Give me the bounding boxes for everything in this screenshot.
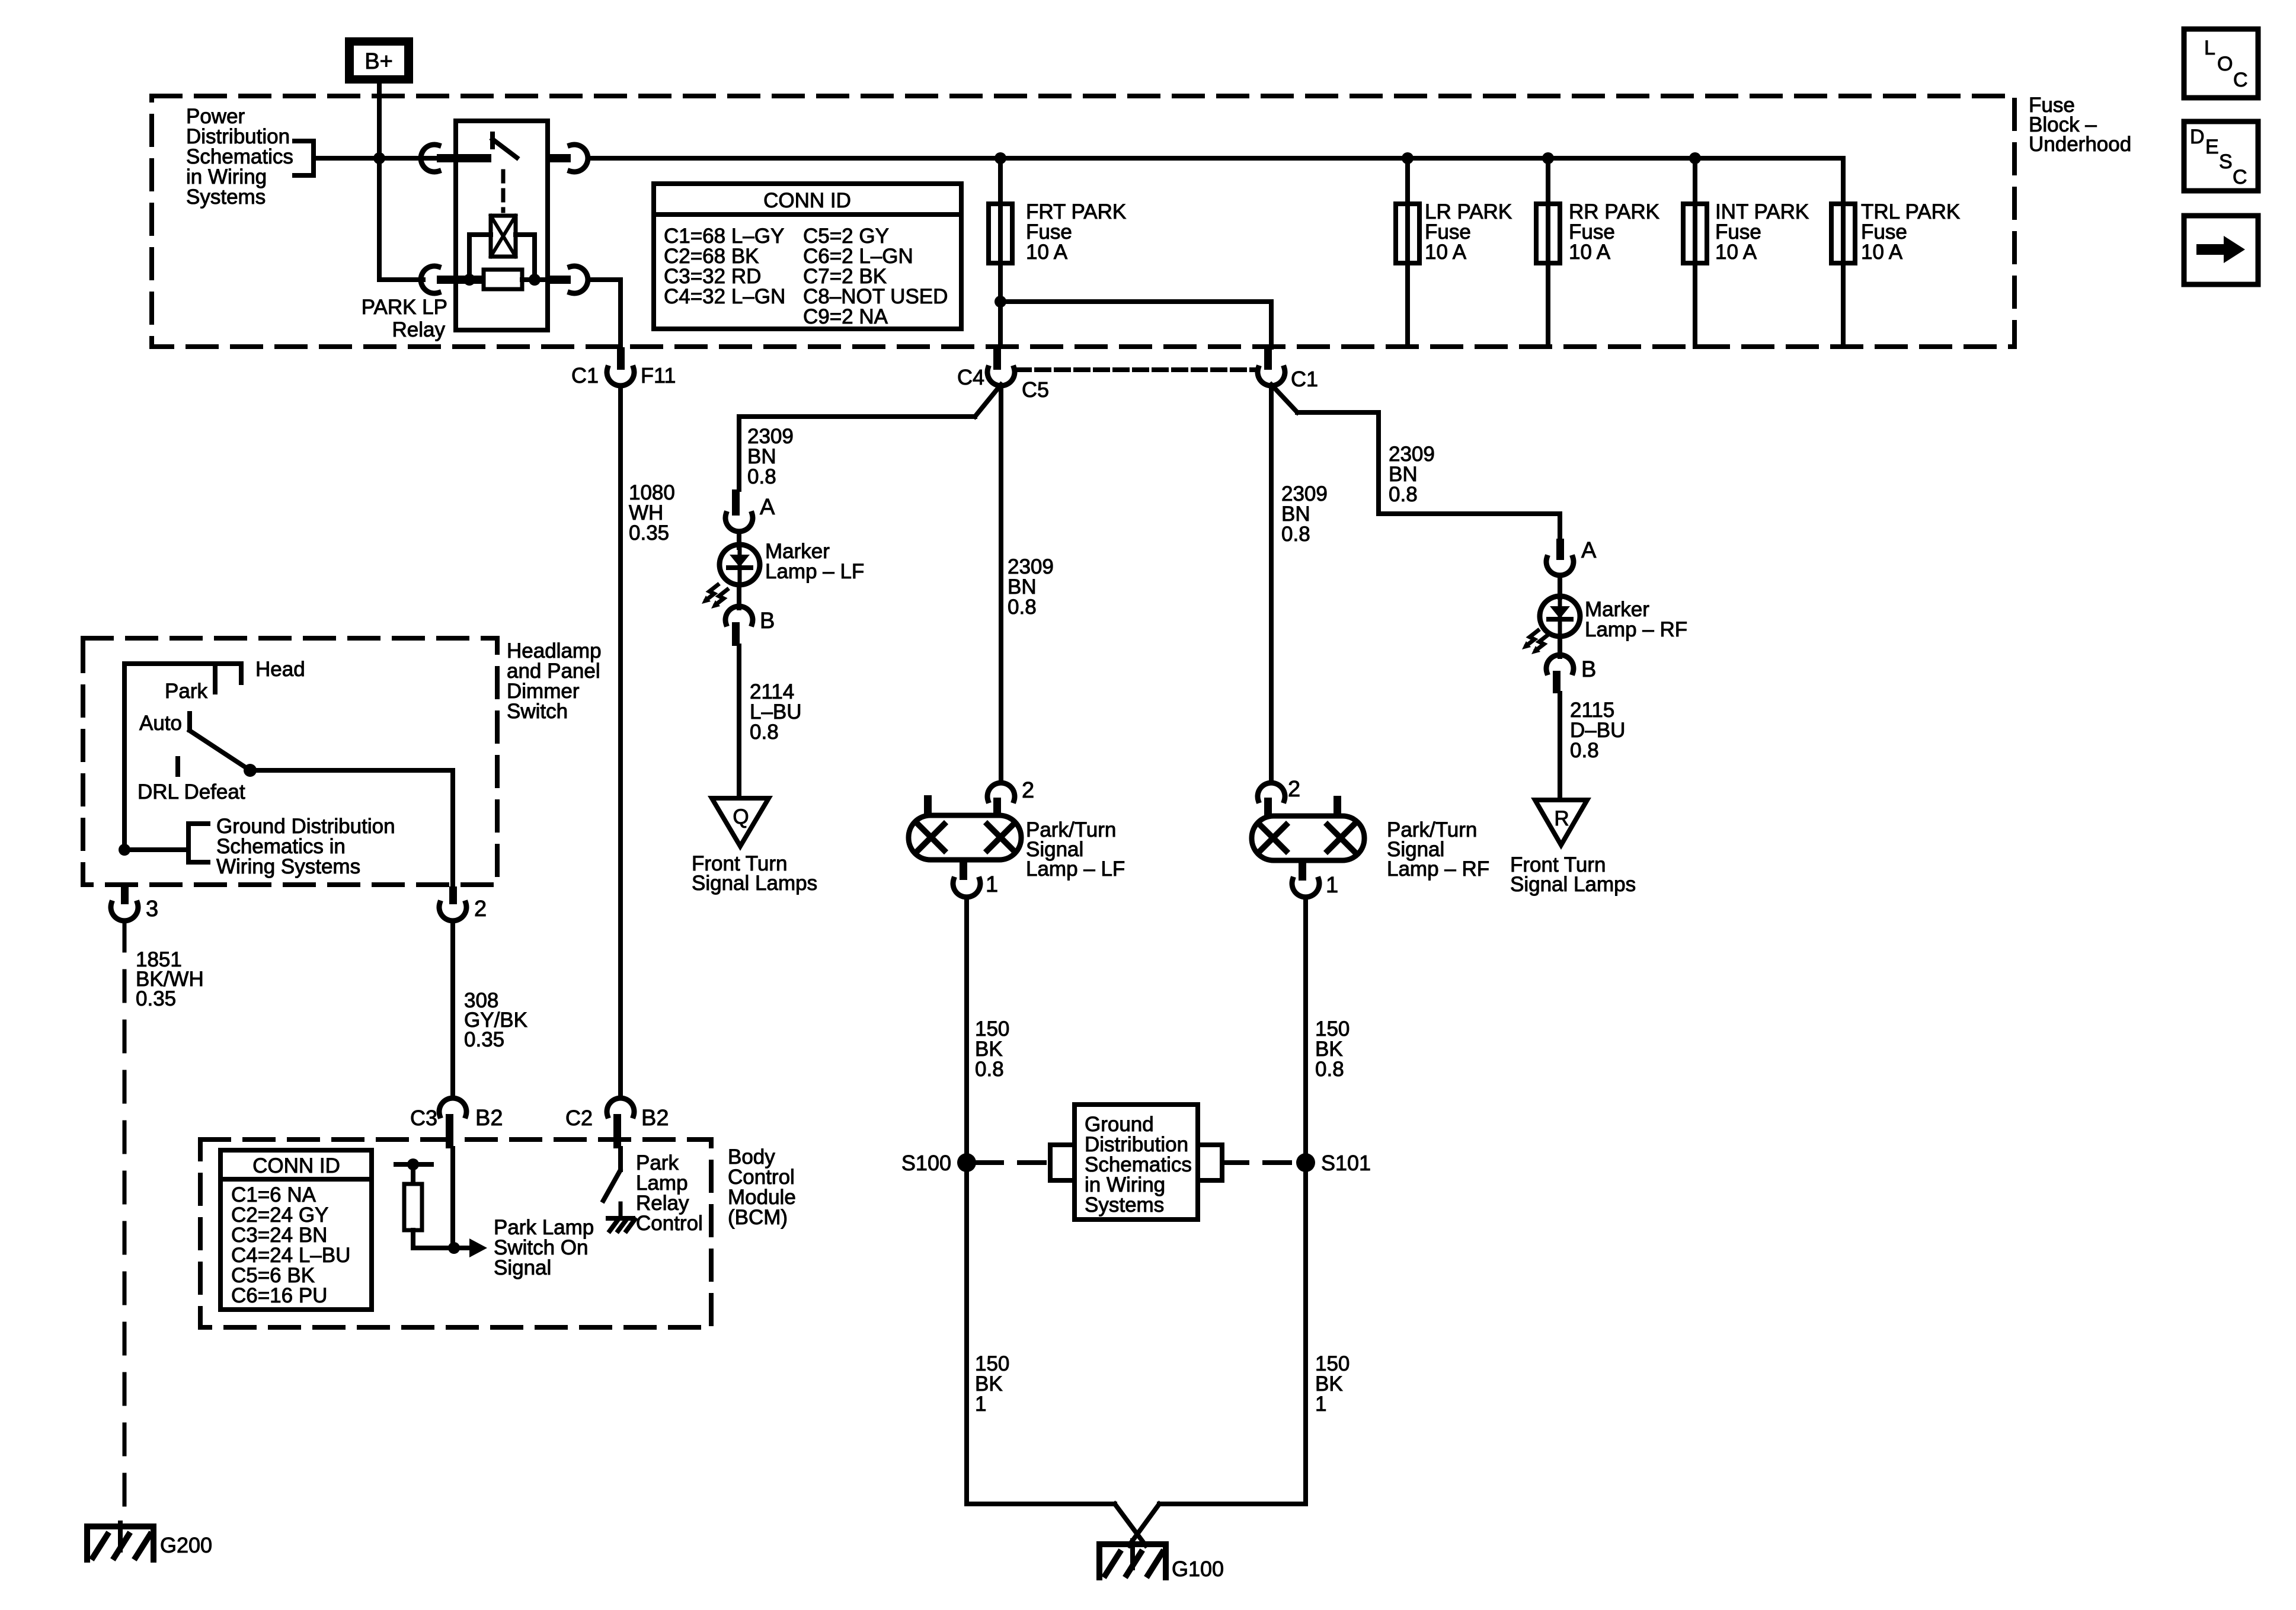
note Ground Distribution Schematics in Wiring Systems (switch) — [119, 815, 395, 878]
svg-text:A: A — [760, 495, 775, 520]
lamp Park/Turn Signal Lamp LF — [909, 778, 1034, 897]
connector A Marker Lamp LF — [725, 489, 775, 532]
label Headlamp and Panel Dimmer Switch — [507, 639, 602, 723]
relay pin upper left connector — [421, 145, 491, 172]
wire C1 down to Park/Turn RF pin 2 — [1269, 386, 1274, 783]
fuse INT PARK 10 A — [1683, 152, 1809, 347]
relay resistor — [469, 270, 548, 289]
svg-text:Lamp – LF: Lamp – LF — [765, 560, 864, 583]
wire B to R triangle — [1558, 693, 1562, 800]
wire dashed to G200 — [123, 921, 127, 1517]
svg-text:0.8: 0.8 — [1570, 739, 1599, 762]
svg-text:CONN ID: CONN ID — [252, 1154, 340, 1177]
label 308 GY/BK 0.35 — [464, 989, 527, 1051]
connector B Marker Lamp LF — [725, 585, 775, 646]
node relay coil right — [529, 274, 541, 286]
svg-text:B+: B+ — [364, 49, 393, 74]
wire C1 branch to Marker Lamp RF — [1271, 385, 1560, 539]
svg-text:G200: G200 — [160, 1533, 212, 1557]
svg-text:S101: S101 — [1321, 1151, 1371, 1175]
ground G200 — [87, 1523, 212, 1560]
svg-text:Lamp – RF: Lamp – RF — [1585, 618, 1687, 641]
svg-text:C2: C2 — [565, 1106, 593, 1130]
svg-text:Park: Park — [165, 680, 207, 703]
svg-text:G100: G100 — [1172, 1557, 1224, 1581]
off-page triangle Q — [712, 798, 769, 846]
label Body Control Module (BCM) — [728, 1145, 796, 1229]
wire C3 into BCM — [450, 1148, 455, 1248]
svg-text:2: 2 — [1288, 777, 1300, 802]
svg-text:Head: Head — [255, 658, 305, 681]
resistor BCM pull-up — [396, 1158, 469, 1248]
label 2309 BN 0.8 (marker LF) — [747, 425, 794, 488]
fuse block underhood dashed outline — [152, 96, 2014, 347]
connector B Marker Lamp RF — [1546, 636, 1596, 693]
jumper C5 to C1 dotted — [1017, 367, 1256, 372]
wire pin2 to BCM C3 — [450, 921, 455, 1098]
label 150 BK 1 (right) — [1315, 1352, 1350, 1416]
svg-text:0.35: 0.35 — [136, 987, 176, 1010]
svg-text:1: 1 — [1326, 873, 1338, 898]
node park lamp switch signal — [448, 1242, 460, 1254]
connector C3 B2 — [410, 1098, 503, 1148]
relay pin lower right connector — [548, 266, 588, 293]
connector C4 / C5 — [957, 347, 1049, 402]
svg-text:F11: F11 — [641, 363, 676, 388]
svg-text:B: B — [760, 609, 775, 633]
wire S100/S101 down to G100 — [967, 1504, 1306, 1545]
node relay coil left — [463, 274, 475, 286]
label Park/Turn Signal Lamp - LF — [1026, 818, 1125, 881]
fuse LR PARK 10 A — [1396, 152, 1512, 347]
wire C5 down to Park/Turn LF pin 2 — [999, 386, 1003, 783]
svg-text:(BCM): (BCM) — [728, 1206, 788, 1229]
svg-text:Lamp – RF: Lamp – RF — [1387, 857, 1489, 881]
svg-text:DRL Defeat: DRL Defeat — [137, 780, 245, 804]
connector A Marker Lamp RF — [1546, 538, 1597, 575]
svg-text:1: 1 — [1315, 1393, 1326, 1416]
svg-text:0.8: 0.8 — [975, 1058, 1004, 1081]
off-page triangle R — [1535, 800, 1587, 845]
wire blade output — [250, 770, 453, 886]
svg-text:1: 1 — [986, 872, 998, 897]
switch Headlamp and Panel Dimmer dashed outline — [83, 638, 497, 885]
svg-text:2: 2 — [1022, 778, 1034, 803]
relay pin lower left connector — [421, 266, 491, 293]
svg-text:0.35: 0.35 — [464, 1028, 504, 1051]
wire C4 to Marker Lamp LF branch — [739, 385, 1001, 489]
label 2114 L-BU 0.8 — [750, 680, 802, 744]
wire B to Q triangle — [737, 646, 741, 798]
node B+ junction — [373, 152, 385, 164]
note Power Distribution Schematics in Wiring Systems — [186, 105, 314, 209]
label 2115 D-BU 0.8 — [1570, 699, 1625, 762]
wire Park/Turn RF pin1 to S101 — [1303, 897, 1308, 1504]
svg-text:B2: B2 — [475, 1106, 503, 1131]
fuse RR PARK 10 A — [1536, 152, 1659, 347]
svg-text:0.8: 0.8 — [1315, 1058, 1344, 1081]
note Ground Distribution Schematics in Wiring Systems (box) — [977, 1105, 1296, 1219]
svg-text:E: E — [2205, 136, 2219, 158]
table CONN ID BCM — [220, 1150, 372, 1310]
ground G100 — [1099, 1541, 1224, 1581]
connector C1 fuse block RF — [1258, 347, 1318, 391]
label 150 BK 1 (left) — [975, 1352, 1009, 1416]
svg-text:Signal Lamps: Signal Lamps — [1510, 873, 1636, 896]
lamp Park/Turn Signal Lamp RF — [1252, 777, 1364, 898]
svg-text:10 A: 10 A — [1569, 241, 1611, 264]
label Park/Turn Signal Lamp - RF — [1387, 818, 1489, 881]
svg-text:Signal Lamps: Signal Lamps — [692, 872, 817, 895]
svg-text:10 A: 10 A — [1425, 241, 1467, 264]
contact DRL Defeat — [137, 758, 245, 804]
svg-text:C6=16 PU: C6=16 PU — [231, 1284, 327, 1307]
svg-text:S100: S100 — [901, 1151, 951, 1175]
svg-text:B2: B2 — [641, 1106, 669, 1131]
svg-text:Auto: Auto — [139, 712, 182, 735]
wire F11 down to BCM C2 — [618, 386, 623, 1098]
svg-text:C5: C5 — [1022, 377, 1049, 402]
relay switch — [493, 134, 517, 158]
label Front Turn Signal Lamps (right) — [1510, 853, 1636, 896]
wire A to lamp — [737, 532, 741, 548]
svg-text:CONN ID: CONN ID — [763, 189, 851, 212]
label 1851 BK/WH 0.35 — [136, 948, 204, 1010]
arrow Park Lamp Switch On Signal — [469, 1216, 594, 1279]
wire A to lamp RF — [1558, 575, 1562, 597]
label Marker Lamp - RF — [1585, 598, 1687, 641]
label 150 BK 0.8 (left) — [975, 1017, 1009, 1081]
svg-text:O: O — [2217, 53, 2233, 75]
power symbol B+ — [345, 37, 413, 84]
svg-text:C: C — [2233, 69, 2248, 91]
svg-text:Underhood: Underhood — [2029, 133, 2131, 156]
label PARK LP Relay — [362, 296, 447, 341]
label 2309 BN 0.8 (marker RF) — [1389, 443, 1435, 506]
connector C1 F11 — [571, 347, 676, 388]
table CONN ID fuse block — [654, 184, 961, 329]
connector pin 2 — [439, 886, 487, 921]
svg-text:0.8: 0.8 — [750, 721, 779, 744]
svg-text:0.8: 0.8 — [1389, 483, 1418, 506]
svg-text:S: S — [2219, 151, 2233, 173]
svg-text:0.8: 0.8 — [1281, 523, 1310, 546]
svg-text:Systems: Systems — [186, 185, 266, 209]
lamp Marker Lamp LF — [720, 545, 760, 585]
svg-text:0.8: 0.8 — [1008, 596, 1037, 619]
svg-text:C3: C3 — [410, 1106, 437, 1130]
svg-text:10 A: 10 A — [1715, 241, 1757, 264]
legend DESC box — [2184, 121, 2258, 191]
svg-text:Lamp – LF: Lamp – LF — [1026, 857, 1125, 881]
splice S100 — [901, 1151, 976, 1175]
svg-text:C9=2 NA: C9=2 NA — [803, 305, 888, 328]
label 2309 BN 0.8 (park/turn LF) — [1008, 555, 1054, 619]
svg-text:10 A: 10 A — [1026, 241, 1068, 264]
legend LOC box — [2184, 29, 2258, 98]
relay coil parallel bracket — [469, 235, 535, 280]
switch blade — [190, 731, 257, 777]
relay PARK LP box — [456, 121, 548, 330]
svg-text:L: L — [2204, 37, 2215, 59]
fuse TRL PARK 10 A — [1831, 158, 1960, 347]
light emission arrows RF — [1522, 630, 1547, 654]
splice S101 — [1296, 1151, 1371, 1175]
connector C2 B2 — [565, 1098, 669, 1148]
svg-text:Signal: Signal — [494, 1256, 551, 1279]
relay coil — [491, 216, 516, 257]
contact Head — [241, 658, 305, 683]
label 150 BK 0.8 (right) — [1315, 1017, 1350, 1081]
wire relay output to F11 — [588, 280, 621, 347]
wire B+ down to bus — [377, 84, 382, 158]
label 2309 BN 0.8 (park/turn RF) — [1281, 482, 1328, 546]
label Park Lamp Relay Control — [636, 1151, 703, 1235]
svg-text:1: 1 — [975, 1393, 986, 1416]
switch common wire — [124, 664, 241, 850]
lamp Marker Lamp RF — [1540, 596, 1580, 636]
contact Park — [165, 666, 215, 703]
svg-text:Wiring Systems: Wiring Systems — [216, 855, 360, 878]
label Front Turn Signal Lamps (left) — [692, 852, 817, 895]
wire bracket to relay bus — [314, 156, 437, 161]
svg-text:0.8: 0.8 — [747, 465, 776, 488]
switch Park Lamp Relay Control — [603, 1148, 621, 1216]
legend next-page arrow box — [2184, 216, 2258, 284]
svg-text:Q: Q — [733, 805, 749, 828]
ground BCM internal — [608, 1218, 635, 1231]
svg-text:Relay: Relay — [392, 318, 446, 341]
module BCM dashed outline — [200, 1140, 711, 1327]
svg-text:D: D — [2190, 126, 2205, 148]
svg-text:PARK LP: PARK LP — [362, 296, 447, 319]
svg-text:Switch: Switch — [507, 700, 568, 723]
svg-text:C4: C4 — [957, 365, 984, 389]
label Fuse Block - Underhood — [2029, 94, 2131, 156]
node FRT PARK branch — [994, 296, 1006, 308]
connector pin 3 — [111, 886, 158, 921]
svg-text:Systems: Systems — [1085, 1193, 1164, 1217]
relay coil actuator dashed — [501, 171, 506, 211]
wire Park/Turn LF pin1 to S100 — [964, 897, 969, 1504]
fuse FRT PARK 10 A — [989, 152, 1126, 347]
svg-text:C: C — [2233, 166, 2247, 188]
svg-text:10 A: 10 A — [1861, 241, 1903, 264]
svg-text:2: 2 — [474, 897, 487, 921]
svg-text:3: 3 — [146, 897, 158, 921]
svg-text:A: A — [1581, 538, 1597, 563]
svg-text:C1: C1 — [571, 363, 599, 388]
wire relay output bus to fuses — [588, 156, 1843, 161]
svg-text:C1: C1 — [1291, 367, 1318, 391]
label Marker Lamp - LF — [765, 540, 864, 583]
light emission arrows LF — [702, 585, 727, 609]
svg-text:Control: Control — [636, 1212, 703, 1235]
label 1080 WH 0.35 — [629, 481, 675, 545]
wire FRT PARK branch to C1 — [1000, 302, 1271, 347]
relay pin upper right connector — [548, 145, 588, 172]
wire B+ junction down to relay coil pin — [379, 158, 423, 280]
svg-text:C4=32 L–GN: C4=32 L–GN — [664, 285, 785, 308]
svg-text:0.35: 0.35 — [629, 521, 669, 545]
svg-text:B: B — [1581, 657, 1596, 682]
svg-text:R: R — [1554, 807, 1569, 830]
contact Auto — [139, 712, 190, 735]
